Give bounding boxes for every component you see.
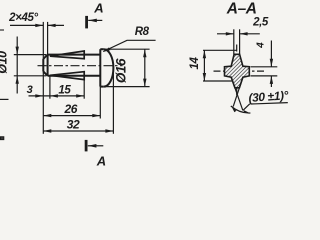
section mark bar top [85,16,88,29]
arrow dia10 top [16,47,19,55]
extension line head face x=100.3 [99,87,101,119]
shank bottom outline [48,75,101,77]
dimension line 2.5 left part [217,33,234,35]
extension line dim4 top [251,66,278,68]
svg-text:14: 14 [189,57,201,70]
dimension line 32 [43,130,113,132]
arrow 2.5 right [240,32,248,35]
label 15 [58,84,71,96]
svg-text:15: 15 [58,84,71,96]
chamfer circle edge [47,55,49,76]
extension line 2.5 right [239,29,241,54]
label dia16 [114,58,129,83]
leader line R8 [103,40,155,51]
label 32 [67,118,80,132]
extension line dia10 bottom [14,75,46,77]
svg-text:R8: R8 [135,26,150,38]
svg-text:A–A: A–A [226,1,257,18]
arrow dim32 left [43,129,51,132]
dimension line 2x45 right part [48,24,64,26]
head left face [99,49,101,86]
spherical head dome R8 [104,49,114,86]
section arrow line bottom [88,145,104,147]
angle dimension arc [231,106,251,113]
arrow dim26 right [92,114,100,117]
section arrow line top [88,19,102,21]
chamfer top edge [43,55,47,59]
dimension line dia10 [16,37,18,94]
arrow dim15 left [50,94,58,97]
chamfer bottom edge [43,72,47,76]
extension line dim14 bottom [203,80,233,82]
dimension line dia16 [144,49,146,86]
scan speck left edge top [0,29,4,31]
dimension line 26 [43,115,100,117]
svg-text:A: A [93,1,103,16]
svg-text:A: A [96,153,106,168]
arrow dim4 up [270,76,273,84]
dimension line 2.5 right part [240,33,260,35]
extension line dim14 top [203,49,237,51]
arrow dim14 up [203,50,206,58]
arrow dim32 right [105,129,113,132]
extension line rib start x=49.9 [49,77,51,99]
extension line 2.5 left [233,29,235,54]
dimension line 2x45 left part [10,24,43,26]
arrow dia16 top [143,49,146,57]
rivet tip face [42,59,44,72]
arrow dim4 down [270,59,273,67]
arrow angle arc right [244,110,250,113]
extension line dia16 bottom [105,86,150,88]
arrow R8 leader [103,47,111,52]
label section title A-A [226,1,257,18]
arrow dim26 left [43,114,51,117]
svg-text:2×45°: 2×45° [8,12,38,24]
arrow 2x45 right [48,24,56,27]
arrow dia16 bottom [143,79,146,87]
leader shelf under 30 deg text [251,103,288,104]
dimension line dim4 lower [270,76,272,87]
extension line dome apex x=113.4 [112,66,114,134]
shank top outline [48,54,101,56]
svg-text:4: 4 [256,42,267,49]
svg-text:3: 3 [27,84,33,96]
svg-text:32: 32 [67,118,80,132]
svg-text:26: 26 [64,102,78,116]
label A bottom [96,153,106,168]
axis centerline of rivet [38,65,123,67]
label A top [93,1,103,16]
label 3 [27,84,33,96]
bottom rib taper wedge [50,72,84,80]
extension line rib full x=84.2 [83,80,85,99]
section mark bar bottom [85,140,88,152]
angle leader right edge extended [233,77,243,106]
svg-text:(30 ±1)°: (30 ±1)° [248,88,289,105]
arrow dim15 right [76,94,84,97]
dimension line dim4 upper [270,41,272,67]
svg-text:Ø10: Ø10 [0,51,10,74]
label dia10 [0,51,10,74]
svg-text:2,5: 2,5 [252,17,269,29]
arrow dim14 down [203,73,206,81]
arrow angle arc left [232,107,237,113]
section horizontal centerline [214,70,265,72]
top rib taper wedge [50,51,84,59]
section arrow head top [88,19,96,23]
arrow 2x45 left [35,24,43,27]
dimension line 3 and 15 [29,95,85,97]
arrow dim3 at tip face [35,94,43,97]
extension line dim4 bottom [251,75,278,77]
dimension line dim14 [203,50,205,81]
arrow dia10 bottom [16,76,19,84]
angle leader left edge extended [231,77,243,110]
label 14 [189,57,201,70]
label 26 [64,102,78,116]
extension line dia10 top [14,54,46,56]
extension line dia16 top [105,48,150,50]
arrow 2.5 left [226,32,234,35]
extension line chamfer end x=47.6 [47,22,49,55]
label 30 deg [248,88,289,105]
section arrow head bottom [88,144,96,148]
section vertical centerline [236,45,238,97]
label 2.5 [252,17,269,29]
label 2x45 [8,12,38,24]
head bottom edge [100,86,104,88]
label R8 [135,26,150,38]
scan speck left edge mid [0,98,9,100]
scan speck left edge low [1,137,4,140]
head top edge [100,48,104,50]
svg-text:Ø16: Ø16 [114,58,129,83]
label 4 [256,42,267,49]
extension line left face x=43.3 [42,22,44,134]
leader to 30 deg text [243,104,250,111]
cruciform section outline with hatching [225,54,250,88]
